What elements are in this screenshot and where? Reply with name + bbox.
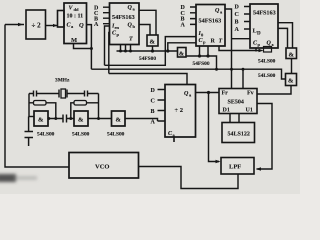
svg-text:54FS163: 54FS163 [253,10,276,17]
svg-text:Q: Q [79,22,84,29]
svg-text:&: & [38,117,44,124]
svg-text:SE504: SE504 [228,100,244,106]
svg-text:A: A [151,120,156,126]
svg-text:÷ 2: ÷ 2 [32,22,42,30]
svg-text:U1: U1 [246,108,253,114]
svg-text:&: & [150,39,156,46]
svg-text:en: en [115,25,120,30]
svg-text:54FS00: 54FS00 [139,56,156,62]
svg-text:54FS163: 54FS163 [112,14,135,21]
svg-text:54FS00: 54FS00 [193,61,210,67]
svg-text:B: B [151,109,155,115]
svg-text:Fr: Fr [222,91,229,97]
svg-text:A: A [94,22,99,28]
svg-text:3MHz: 3MHz [55,78,70,84]
svg-text:D1: D1 [223,108,230,114]
svg-text:T: T [129,37,133,43]
svg-text:54LS00: 54LS00 [258,73,276,79]
svg-text:M: M [71,37,77,44]
svg-text:54LS00: 54LS00 [258,59,276,65]
svg-text:LPF: LPF [229,164,241,171]
svg-text:C: C [235,12,239,18]
svg-text:÷ 2: ÷ 2 [175,107,183,114]
svg-text:54LS00: 54LS00 [72,132,90,138]
svg-text:54LS00: 54LS00 [37,132,55,138]
svg-text:&: & [179,52,184,58]
svg-text:R: R [211,39,216,45]
svg-text:54LS122: 54LS122 [228,132,250,138]
svg-text:T: T [219,39,223,45]
svg-text:A: A [181,22,186,28]
svg-text:10 : 11: 10 : 11 [67,14,84,20]
svg-text:VCO: VCO [95,164,109,171]
svg-text:D: D [235,5,240,11]
svg-text:D: D [151,88,156,94]
svg-text:54FS163: 54FS163 [199,18,222,25]
svg-text:A: A [235,27,240,33]
svg-text:D: D [257,32,261,37]
svg-text:&: & [288,78,294,85]
svg-text:dd: dd [74,7,80,12]
svg-text:&: & [78,117,84,124]
svg-text:Fv: Fv [247,91,254,97]
svg-text:&: & [116,117,122,124]
svg-text:54LS00: 54LS00 [107,132,125,138]
svg-text:C: C [151,99,155,105]
svg-text:B: B [235,20,239,26]
svg-text:&: & [289,52,295,59]
